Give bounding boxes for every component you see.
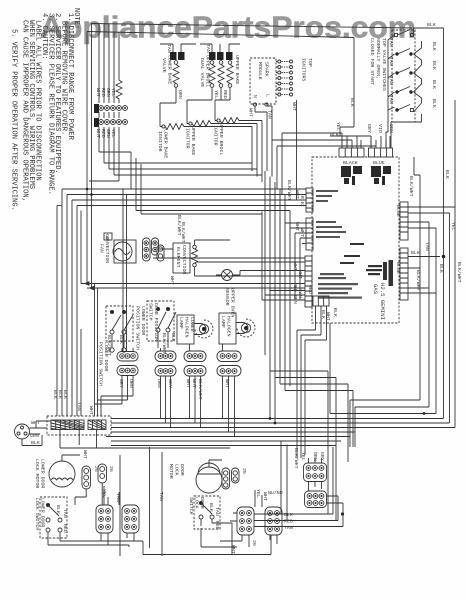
node joins below connectors [99, 112, 119, 118]
svg-text:LOWER DOOR: LOWER DOOR [103, 342, 109, 371]
convection fan connector pills [143, 238, 159, 261]
svg-text:TAN: TAN [76, 402, 82, 411]
svg-text:CONVECTION: CONVECTION [104, 234, 110, 263]
svg-text:RED: RED [214, 521, 220, 530]
svg-text:UPPER BAKE: UPPER BAKE [234, 55, 240, 84]
wires down from mid horizontals [81, 282, 305, 290]
wire below block [60, 430, 230, 449]
coil LOWER BAKE VALVE solenoid [173, 61, 179, 103]
wires spark module L/N into bundle [255, 100, 422, 200]
svg-text:LOWER DOOR: LOWER DOOR [40, 498, 46, 527]
svg-text:BLK: BLK [438, 264, 444, 273]
svg-text:H2.5 GEMINI: H2.5 GEMINI [379, 283, 386, 320]
svg-text:LOCK MOTOR: LOCK MOTOR [34, 459, 40, 488]
switch 2 [398, 49, 411, 55]
svg-text:TAN: TAN [388, 57, 394, 66]
svg-text:RED: RED [284, 519, 293, 525]
svg-text:WHT: WHT [230, 545, 236, 554]
svg-text:ORN: ORN [177, 90, 183, 99]
svg-text:BLK/WHT: BLK/WHT [456, 262, 462, 283]
svg-text:LOWER DOOR: LOWER DOOR [40, 459, 46, 488]
svg-text:BLUE: BLUE [373, 160, 385, 166]
switch 5 bottom row [411, 109, 414, 112]
connector BLUE [369, 148, 393, 157]
svg-text:BLUE: BLUE [395, 262, 401, 274]
svg-text:ORN: ORN [292, 295, 298, 304]
svg-text:5. VERIFY PROPER OPERATION AFT: 5. VERIFY PROPER OPERATION AFTER SERVICI… [10, 29, 18, 211]
top corner BLK to bus [414, 28, 444, 419]
svg-text:BLK: BLK [444, 170, 450, 179]
svg-text:GRY: GRY [118, 379, 124, 388]
connector row 2 [94, 118, 127, 127]
wire BLK bus from switches down [354, 38, 388, 128]
right verticals turning left [350, 400, 420, 447]
upper bake ignitor resistor [189, 122, 192, 125]
wires pills to bottom bus [161, 344, 235, 437]
switch right BLK leads [414, 41, 422, 112]
board connector strip C (left) [305, 256, 312, 307]
power cord receptacle [15, 421, 52, 446]
svg-text:TAN: TAN [205, 44, 211, 53]
svg-text:BLK/WHT: BLK/WHT [286, 180, 292, 201]
svg-text:L: L [265, 94, 271, 97]
svg-text:BLK: BLK [431, 99, 437, 108]
svg-text:TAN: TAN [284, 525, 293, 531]
svg-text:LAMP: LAMP [178, 317, 184, 329]
svg-text:TAN: TAN [388, 95, 394, 104]
wire colour labels left stack [95, 88, 116, 138]
oven light lamp [216, 270, 240, 281]
svg-text:WHT: WHT [169, 276, 175, 285]
svg-text:SWITCH: SWITCH [188, 497, 194, 515]
svg-text:WHT: WHT [82, 450, 88, 459]
door lock wiring runs [143, 490, 277, 555]
wires from right strips to right bus [408, 100, 455, 428]
svg-text:IGNITOR: IGNITOR [213, 125, 219, 146]
svg-text:GRY: GRY [167, 379, 173, 388]
pill labels [156, 379, 230, 400]
lower halogen lamp box and bulb [177, 315, 213, 344]
convection fan motor [113, 240, 136, 263]
svg-text:WHT: WHT [248, 108, 254, 117]
right long verticals [450, 100, 456, 428]
svg-text:TOP VALVE SWITCHES: TOP VALVE SWITCHES [381, 38, 387, 91]
svg-text:MOTOR: MOTOR [168, 464, 174, 479]
svg-text:BLK/WHT: BLK/WHT [180, 222, 186, 243]
svg-text:RED: RED [62, 524, 68, 533]
svg-text:BLK: BLK [62, 390, 68, 399]
svg-text:YEL: YEL [300, 452, 306, 461]
svg-text:YEL: YEL [450, 222, 456, 231]
terminal block hatched pins [51, 420, 106, 430]
convection element box and coil [157, 240, 216, 276]
wire labels above block [52, 390, 94, 415]
svg-text:26: 26 [251, 540, 257, 546]
svg-text:LAMP: LAMP [220, 316, 226, 328]
strip C feeder horizontals [153, 240, 305, 276]
lower lock wiring [48, 483, 143, 555]
board connector strip B (left) [306, 218, 313, 250]
svg-text:BLK: BLK [55, 505, 61, 514]
right cluster wiring and corners [254, 441, 343, 527]
svg-text:RED: RED [307, 285, 313, 294]
notes [10, 8, 81, 211]
svg-text:SENSOR: SENSOR [224, 288, 230, 306]
bottom wire bus [106, 419, 455, 446]
door lock connector blocks [237, 507, 282, 535]
svg-text:WHT: WHT [297, 270, 303, 279]
svg-text:UPPER BROIL: UPPER BROIL [205, 55, 211, 87]
svg-text:BLK/WHT: BLK/WHT [293, 448, 299, 469]
svg-text:TAN: TAN [424, 242, 430, 251]
board connector strip lower right [400, 248, 408, 300]
svg-text:WHT: WHT [299, 228, 305, 237]
svg-text:BLK/WHT: BLK/WHT [197, 379, 203, 400]
board inner smudge near right [340, 243, 393, 286]
lower lock connector blocks [96, 505, 139, 533]
svg-text:GRY: GRY [366, 124, 372, 133]
svg-text:YEL: YEL [110, 88, 116, 97]
svg-text:TAN: TAN [158, 492, 164, 501]
svg-text:LOCK: LOCK [194, 497, 200, 509]
svg-text:BLK: BLK [31, 440, 40, 446]
switch 3 [398, 68, 411, 74]
switch block label [369, 38, 387, 91]
board connector strip A (left) [306, 188, 313, 212]
svg-text:TAN: TAN [115, 493, 121, 502]
svg-text:TAN: TAN [388, 38, 394, 47]
svg-text:HALOGEN: HALOGEN [226, 316, 232, 337]
svg-text:GAS: GAS [372, 284, 379, 295]
svg-text:VIO: VIO [377, 124, 383, 133]
svg-text:GRY: GRY [319, 452, 325, 461]
svg-text:TAN: TAN [62, 509, 68, 518]
svg-text:LOCK: LOCK [174, 464, 180, 476]
svg-text:LOWER BAKE: LOWER BAKE [167, 55, 173, 84]
svg-text:BLK: BLK [349, 98, 355, 107]
svg-text:VALVE: VALVE [161, 58, 167, 73]
svg-text:BLK: BLK [431, 80, 437, 89]
lower door lock motor [49, 455, 107, 489]
ignitor leads [160, 103, 176, 127]
connector pill column A rows [95, 189, 139, 416]
svg-text:IGNITOR: IGNITOR [185, 128, 191, 149]
connector BLUE pin smudge [371, 166, 391, 185]
halogen lamp box and bulb [219, 313, 255, 344]
wire top bus A [92, 24, 413, 29]
svg-text:RED: RED [222, 90, 228, 99]
svg-text:BLK/WHT: BLK/WHT [161, 333, 167, 354]
lower door position switch contacts [110, 310, 133, 352]
door lock area frame wires [120, 447, 162, 556]
svg-text:26: 26 [93, 466, 99, 472]
door lock motor [196, 460, 239, 493]
svg-text:BLK: BLK [427, 22, 436, 28]
svg-text:HALOGEN: HALOGEN [184, 317, 190, 338]
svg-text:BLK: BLK [332, 308, 338, 317]
svg-text:26: 26 [108, 466, 114, 472]
svg-text:TAN: TAN [214, 507, 220, 516]
svg-text:BLK: BLK [431, 61, 437, 70]
wire corner nest left-mid [57, 152, 306, 416]
door lock switch right [194, 496, 220, 529]
svg-text:DOOR POSITION: DOOR POSITION [153, 303, 159, 341]
svg-text:BLK: BLK [411, 250, 420, 256]
svg-text:WHT: WHT [325, 312, 331, 321]
svg-text:ORN: ORN [128, 379, 134, 388]
coils UPPER BROIL DUAL VALVE and UPPER BAKE solenoids [209, 61, 233, 100]
svg-text:FAN: FAN [99, 244, 105, 253]
svg-text:IGNITOR: IGNITOR [157, 131, 163, 152]
svg-text:BLK/WHT: BLK/WHT [415, 270, 421, 291]
small connector B [104, 233, 112, 240]
svg-text:WHT: WHT [224, 379, 230, 388]
board connector strip upper right [400, 202, 408, 240]
lower door lock switch contacts [46, 503, 62, 545]
svg-text:MODULE: MODULE [257, 62, 263, 80]
door lock switch contacts [199, 501, 214, 526]
junction dots [86, 188, 93, 290]
svg-text:SWITCH: SWITCH [148, 303, 154, 321]
svg-text:DUAL VALVE: DUAL VALVE [199, 58, 205, 87]
dashed enclosure [392, 30, 415, 122]
door position switch contacts [156, 307, 176, 348]
svg-text:POSITION SWITCH: POSITION SWITCH [98, 342, 104, 386]
svg-text:POSITION SWITCH: POSITION SWITCH [135, 306, 141, 350]
right cluster connector blocks [304, 463, 327, 508]
pin stub wires above connectors [330, 136, 390, 148]
svg-text:CLOSED FOR START: CLOSED FOR START [369, 38, 375, 85]
strip B pin text smudge [316, 221, 346, 238]
horizontals from mid turning down left of bus-nest [270, 371, 328, 514]
connector BLACK pin smudge [341, 166, 362, 185]
svg-text:LOCK SWITCH: LOCK SWITCH [34, 498, 40, 530]
svg-text:WHT: WHT [191, 379, 197, 388]
corner turns to mid bundle [89, 152, 262, 181]
svg-text:NU/ND: NU/ND [268, 490, 283, 496]
connector BLACK [339, 148, 364, 157]
svg-text:YEL: YEL [101, 489, 107, 498]
svg-text:YEL: YEL [255, 489, 261, 498]
svg-text:YEL: YEL [335, 122, 341, 131]
wire TAN leads left of top valve switches [388, 28, 444, 419]
lower door lock switch [40, 497, 67, 538]
svg-text:25: 25 [241, 468, 247, 474]
wire runs y214 and enclosure verticals [95, 214, 263, 416]
svg-text:BLK: BLK [170, 333, 176, 342]
svg-text:ELEMENT: ELEMENT [175, 247, 181, 268]
svg-text:ORN: ORN [156, 379, 162, 388]
svg-text:UPPER BROIL: UPPER BROIL [218, 123, 224, 155]
svg-text:BLK: BLK [431, 42, 437, 51]
valve connector block 2 [200, 44, 240, 60]
oven sensor resistor [116, 80, 122, 103]
upper broil ignitor resistor [217, 119, 220, 122]
valve connector block 1 [160, 44, 196, 60]
strip A pin text smudge [316, 190, 338, 202]
connector pill rows mid columns B C D [155, 351, 241, 376]
svg-text:WHT: WHT [31, 420, 40, 426]
switch 1 [395, 34, 398, 37]
svg-text:N: N [252, 95, 258, 98]
svg-text:LOWER: LOWER [189, 317, 195, 332]
svg-text:BLK: BLK [299, 196, 305, 205]
junction dot BLK [442, 255, 446, 259]
svg-text:BLK/WHT: BLK/WHT [408, 176, 414, 197]
wire BLK/WHT from board top right down [414, 157, 420, 268]
svg-text:CONVECTION: CONVECTION [181, 245, 187, 274]
wire top bus B [87, 32, 354, 38]
svg-text:IGNITORS: IGNITORS [301, 58, 307, 82]
svg-text:LOWER BAKE: LOWER BAKE [163, 129, 169, 158]
svg-text:BLK: BLK [284, 512, 293, 518]
svg-text:DOOR: DOOR [179, 464, 185, 476]
svg-text:WHT: WHT [88, 406, 94, 415]
svg-text:BLK: BLK [208, 503, 214, 512]
spark module terminals and spark gaps [253, 60, 292, 106]
svg-text:TAN: TAN [388, 76, 394, 85]
svg-text:SPARK: SPARK [264, 62, 270, 77]
svg-text:GRN: GRN [30, 433, 39, 439]
switch 4 [398, 87, 411, 93]
svg-text:LOWER DOOR: LOWER DOOR [140, 306, 146, 335]
strip feeder labels [180, 180, 305, 304]
svg-text:YEL: YEL [110, 129, 116, 138]
svg-text:DOOR: DOOR [199, 497, 205, 509]
svg-text:CAN CAUSE IMPROPER AND DANGERO: CAN CAUSE IMPROPER AND DANGEROUS OPERATI… [21, 20, 29, 202]
svg-text:WHT: WHT [291, 102, 297, 111]
svg-text:BLUE: BLUE [395, 205, 401, 217]
board bottom connector RED WHT BLK [297, 296, 330, 458]
svg-text:TOP: TOP [307, 58, 313, 67]
svg-text:BLACK: BLACK [343, 160, 358, 166]
svg-text:YEL: YEL [213, 90, 219, 99]
svg-text:TAN: TAN [166, 44, 172, 53]
lower bake ignitor resistor [162, 125, 165, 128]
left bus horizontals to board strip A [62, 189, 306, 211]
strip C pin text smudge [318, 273, 362, 299]
svg-text:UPPER BAKE: UPPER BAKE [190, 126, 196, 155]
svg-text:NORMALLY OPEN,: NORMALLY OPEN, [375, 38, 381, 79]
connector row 1 [94, 104, 127, 113]
wire drops to P-connector [99, 24, 119, 103]
svg-text:WHT: WHT [185, 379, 191, 388]
